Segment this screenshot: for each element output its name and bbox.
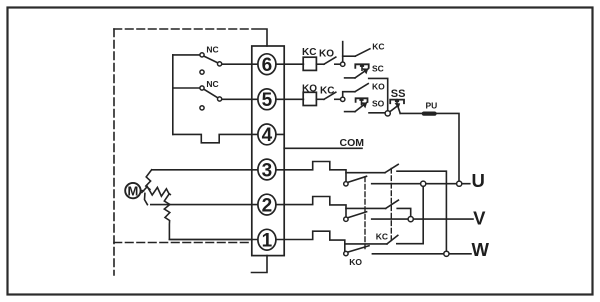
svg-text:KO: KO — [349, 257, 362, 267]
svg-text:SO: SO — [372, 99, 385, 109]
svg-text:6: 6 — [262, 55, 273, 76]
svg-text:SC: SC — [372, 63, 384, 73]
svg-text:KO: KO — [319, 49, 334, 60]
svg-text:KC: KC — [302, 47, 316, 58]
svg-text:SS: SS — [391, 88, 406, 100]
svg-text:5: 5 — [262, 90, 273, 111]
svg-text:KC: KC — [372, 41, 384, 51]
svg-text:2: 2 — [262, 195, 273, 216]
svg-text:COM: COM — [340, 137, 365, 149]
svg-text:4: 4 — [262, 125, 273, 146]
svg-text:W: W — [472, 239, 490, 260]
svg-text:1: 1 — [262, 231, 273, 252]
svg-text:V: V — [473, 208, 486, 229]
svg-text:3: 3 — [262, 160, 273, 181]
svg-text:KC: KC — [320, 86, 334, 97]
svg-text:U: U — [472, 170, 485, 191]
svg-text:NC: NC — [206, 79, 218, 89]
svg-text:KC: KC — [376, 231, 388, 241]
svg-text:M: M — [127, 183, 138, 198]
svg-text:KO: KO — [372, 82, 385, 92]
svg-text:PU: PU — [426, 100, 438, 110]
svg-text:NC: NC — [206, 45, 218, 55]
svg-text:KO: KO — [302, 84, 317, 95]
